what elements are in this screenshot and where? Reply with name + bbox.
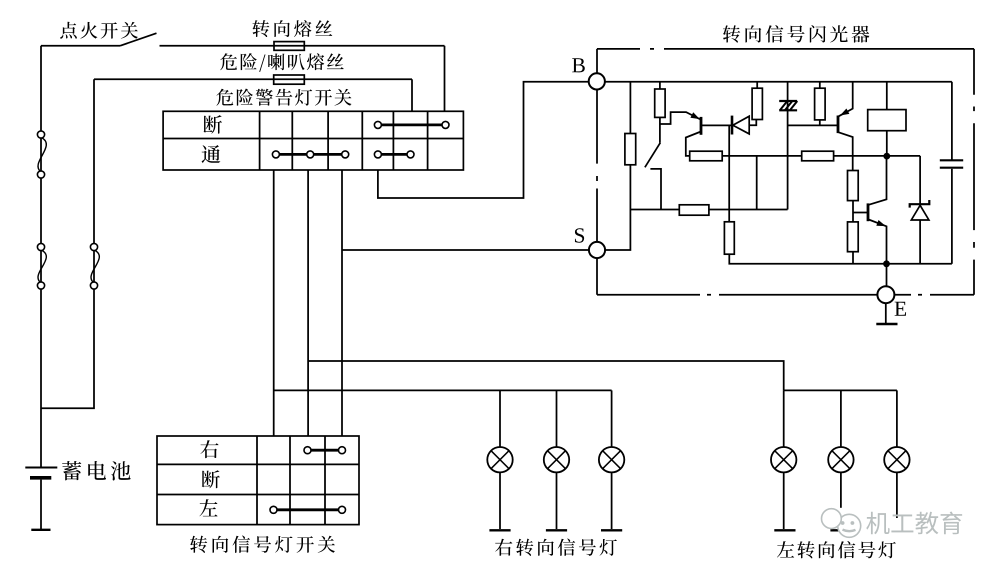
terminal E [877, 286, 894, 303]
fuse FU1 turn [274, 42, 304, 51]
wire R3 top lead [659, 82, 661, 89]
wire emitter rail [729, 254, 952, 264]
wire battery feed left [40, 46, 42, 468]
resistor R7 [724, 222, 734, 254]
wire R9-R10 link [852, 201, 854, 222]
ground right lamp 3 [601, 529, 622, 531]
junction node A [883, 153, 890, 160]
label 通 (on) [202, 145, 221, 163]
capacitor C [940, 82, 963, 264]
wire fuse2 down to switch table [411, 79, 413, 111]
wire relay top lead [886, 82, 888, 110]
resistor R9 [848, 171, 859, 201]
label right turn lamps 右转向信号灯 [495, 539, 617, 556]
transistor V1 bar [700, 117, 703, 135]
resistor R8 [815, 88, 826, 120]
wire V3 emitter [869, 220, 887, 264]
transistor V2 bar [837, 116, 840, 134]
zener VD2 [910, 156, 930, 264]
wire fuse1 down to switch table [444, 46, 446, 112]
wire R4 to R5 [722, 155, 802, 157]
wire to flasher B [378, 82, 588, 198]
fusible link FL2 [37, 243, 46, 289]
label flasher 转向信号闪光器 [723, 25, 869, 43]
flasher enclosure right border [973, 49, 975, 295]
wire B rail [605, 81, 952, 83]
label left turn lamps 左转向信号灯 [777, 541, 896, 558]
resistor R6 [752, 88, 762, 119]
hazard switch contact on-row left [272, 151, 348, 158]
label battery 蓄电池 [62, 461, 130, 480]
turn switch contact right-row [304, 447, 346, 454]
wire to flasher S [342, 249, 589, 251]
flasher enclosure top border [597, 48, 974, 50]
flasher enclosure bottom border [597, 294, 974, 296]
wire R8 top lead [819, 82, 821, 88]
wire relay bottom lead [886, 131, 888, 156]
relay contact K fixed [650, 169, 661, 210]
wire hazard feed [94, 78, 412, 80]
ground E [876, 303, 897, 324]
resistor R10 [848, 222, 859, 252]
turn switch contact left-row [270, 506, 346, 513]
label B [572, 58, 585, 72]
wire R6 top lead [756, 82, 758, 88]
wire node to E [886, 264, 888, 287]
wire V1 emitter [660, 112, 700, 124]
wire right-turn feed bus [274, 389, 612, 391]
fusible link FL3 [90, 243, 99, 289]
transistor V3 bar [867, 203, 870, 221]
hazard switch contact off-row [374, 121, 449, 128]
wire timing tap [756, 156, 758, 210]
wire S internal [605, 210, 630, 251]
wire VD1 anode [749, 120, 756, 126]
label ignition switch 点火开关 [60, 22, 138, 39]
wire V2 collector [839, 132, 853, 170]
terminal S [589, 242, 605, 258]
label 右 (right) [200, 440, 218, 458]
wire R3 bottom to contact [659, 117, 661, 142]
hazard switch table grid [163, 111, 463, 170]
junction node B2 [883, 260, 890, 267]
wire left-turn feed [308, 361, 784, 390]
turn signal switch table grid [157, 436, 359, 525]
transistor V3 emitter arrow [876, 220, 886, 226]
label turn fuse 转向熔丝 [252, 20, 332, 37]
lamp right-turn HL2 [544, 390, 569, 529]
battery GB 蓄电池 [25, 468, 57, 530]
label turn signal switch 转向信号灯开关 [190, 536, 335, 553]
lamp left-turn HL5 [828, 390, 853, 507]
resistor R3 [655, 89, 665, 117]
wire VD1 cathode junction down [728, 125, 730, 222]
wire V3 collector [869, 159, 887, 205]
diode VD1 triangle [733, 116, 749, 134]
watermark logo [822, 509, 861, 538]
wire R1 bottom lead [629, 165, 631, 210]
relay coil K [868, 110, 906, 131]
ignition switch SW1 [41, 33, 157, 46]
thermal compensator RT [779, 101, 797, 110]
flasher enclosure left border [596, 49, 598, 295]
resistor R4 [690, 151, 723, 161]
label 左 (left) [199, 499, 217, 516]
label 断 (off) lower [202, 470, 220, 488]
label E [895, 302, 906, 316]
fusible link FL1 [37, 131, 46, 178]
watermark text 机工教育 [866, 512, 962, 535]
wire R5 to zener [834, 155, 921, 157]
resistor R2 [679, 205, 709, 215]
label S [575, 228, 584, 242]
hazard switch contact on-row right [374, 151, 414, 158]
wire V1 base [702, 124, 731, 126]
label 断 (off) [203, 115, 222, 133]
ground right lamp 2 [546, 529, 567, 531]
label hazard/horn fuse 危险/喇叭熔丝 [220, 53, 344, 72]
wire battery feed right [41, 79, 94, 408]
ground left lamp 1 [774, 529, 795, 531]
wire thermal branch [787, 82, 789, 210]
wire R1 top lead [629, 82, 631, 134]
ground left lamp 2 (partial) [830, 529, 851, 531]
wire V3 base [853, 212, 867, 214]
ground right lamp 1 [489, 529, 510, 531]
resistor R1 [625, 134, 636, 165]
resistor R5 [802, 151, 834, 161]
wire timing rail [630, 209, 787, 211]
label hazard warning switch 危险警告灯开关 [216, 89, 351, 106]
wire V2 emitter [839, 82, 853, 117]
lamp right-turn HL1 [487, 390, 512, 529]
wire V1 collector [686, 132, 701, 156]
wire left-turn bus [784, 389, 897, 391]
lamp left-turn HL6 [884, 390, 909, 518]
wire R10 bottom lead [852, 252, 854, 264]
wire R8 bottom lead [819, 120, 821, 126]
diode VD1 bar [731, 116, 734, 135]
wire hazard col3 to turn switch / S tap [341, 170, 343, 436]
transistor V2 emitter arrow [840, 109, 849, 116]
relay contact K arm [645, 143, 660, 168]
wire hazard col2 to turn switch [307, 170, 309, 436]
wire hazard col1 to turn switch [273, 170, 275, 436]
lamp left-turn HL4 [771, 390, 796, 529]
transistor V1 emitter arrow [690, 112, 699, 119]
terminal B [589, 73, 605, 89]
wire ignition to fuse [160, 45, 445, 47]
lamp right-turn HL3 [599, 390, 624, 529]
fuse FU2 hazard/horn [274, 75, 305, 84]
wire V2 base [788, 124, 837, 126]
